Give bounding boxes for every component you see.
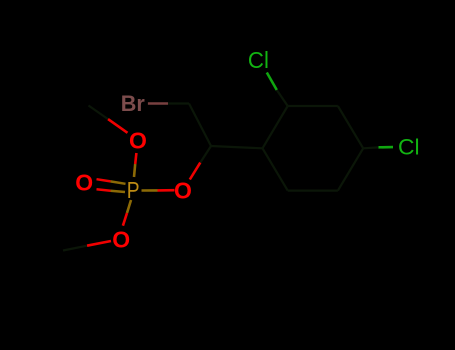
svg-text:Cl: Cl: [398, 135, 420, 160]
ring bond E-F (faint carbon): [263, 148, 288, 190]
ring bond B-C (faint carbon): [338, 106, 363, 148]
bond Cl2-ring: carbon half (faint): [363, 146, 378, 149]
bond O3-CH3b: carbon half (faint): [63, 246, 87, 251]
bond Cl1-ring: chlorine half: [267, 73, 277, 91]
bond Cl1-ring: carbon half (faint): [277, 90, 288, 106]
bond O4-C1: carbon half (faint): [200, 146, 211, 163]
ring bond F-A (faint carbon): [263, 106, 288, 148]
bond C2-Br bromine half: [148, 102, 168, 105]
bond P-O2: olive half: [134, 164, 135, 177]
svg-text:O: O: [174, 177, 192, 203]
bond C2-Br carbon half (faint): [168, 102, 189, 104]
P=O1 double bond lower line: [97, 189, 111, 190]
bond O2-CH3a: carbon half (faint): [89, 106, 109, 120]
bond Cl2-ring: chlorine half: [379, 146, 394, 149]
svg-text:Br: Br: [121, 91, 145, 116]
ring bond A-B (faint carbon): [288, 105, 338, 107]
svg-text:O: O: [129, 127, 147, 153]
bond P-O3: red half: [123, 213, 127, 226]
svg-text:P: P: [127, 177, 140, 203]
bond P-O4: olive half: [142, 189, 158, 192]
ring bond D-E (faint carbon): [288, 190, 338, 192]
bond C1-F (faint carbon): [211, 146, 263, 148]
bond O2-CH3a: red half: [108, 119, 128, 133]
bond O3-CH3b: red half: [87, 241, 111, 246]
vinyl double bond C1=C2 (faint carbon): [189, 104, 211, 147]
svg-text:O: O: [112, 226, 130, 252]
svg-text:Cl: Cl: [248, 47, 269, 73]
P=O1 double bond upper line: [97, 179, 111, 181]
bond O4-C1: oxygen half (red): [190, 163, 201, 180]
svg-text:O: O: [75, 169, 93, 195]
bond P-O3: olive half: [127, 200, 131, 213]
bond P-O4: red half: [158, 189, 175, 192]
ring bond C-D (faint carbon): [338, 148, 363, 190]
bond P-O2: red half: [135, 153, 136, 164]
